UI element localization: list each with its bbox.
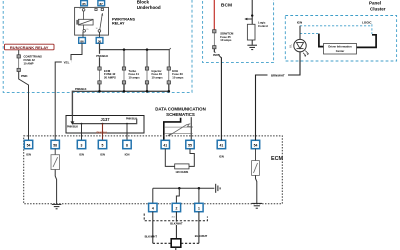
logic control element [247, 24, 255, 40]
internal LOGIC dashed net [371, 24, 373, 34]
svg-text:54: 54 [254, 144, 258, 148]
fuse SDM/TCM 25 [213, 30, 234, 49]
wire lamp to IGN net [299, 26, 301, 40]
svg-text:IGN: IGN [26, 152, 31, 156]
fuse Turbo Fuse 41 [122, 67, 140, 84]
svg-text:LOGIC: LOGIC [362, 21, 372, 25]
svg-text:41: 41 [163, 144, 167, 148]
wire below splice [175, 247, 177, 250]
svg-text:PNK/BLK: PNK/BLK [97, 132, 108, 135]
ECM pin 41 CAN [161, 140, 169, 148]
fuse EXH Fuse 33 [167, 67, 184, 84]
svg-text:PNK: PNK [21, 74, 28, 78]
wire J137 to ECM pin 3 [81, 124, 83, 141]
svg-text:85: 85 [82, 2, 86, 6]
driver information center [324, 44, 357, 55]
relay PWR/TRANS outline [75, 7, 109, 35]
svg-text:Driver Information: Driver Information [328, 45, 352, 49]
svg-text:10 amps: 10 amps [220, 38, 232, 42]
fuse Injector Fuse 40 [145, 67, 163, 84]
run/crank relay reference label [5, 44, 55, 50]
svg-text:54: 54 [27, 144, 31, 148]
ECM pin 8 [123, 140, 131, 156]
svg-text:2: 2 [175, 207, 177, 211]
junction dots top bus [123, 48, 149, 51]
relay pin 30 [96, 32, 103, 43]
J137 internal dots [81, 123, 128, 125]
wire driver to ground [256, 175, 257, 203]
arrow continuation left [247, 18, 253, 20]
svg-text:RELAY: RELAY [112, 21, 125, 25]
svg-text:87: 87 [100, 2, 104, 6]
wire top feed bus to fuses [100, 49, 170, 51]
ground BCM [247, 45, 257, 49]
svg-text:SCHEMATICS: SCHEMATICS [166, 112, 195, 117]
wire bus to pin 4 [152, 188, 154, 203]
fuse CONT/TRANS 42 [17, 55, 20, 72]
ground bus dots [178, 187, 200, 190]
ECM pin 3 [77, 140, 85, 156]
thick wire LOGIC to DIC left [319, 34, 324, 47]
wire BLK/WHT pin1 to splice [198, 212, 200, 244]
svg-text:PNK/BLK: PNK/BLK [96, 54, 108, 58]
svg-text:BLK/WHT: BLK/WHT [145, 234, 158, 238]
BCM logic control wire [251, 0, 253, 24]
underhood fuse block label [137, 0, 161, 10]
svg-text:BLK/WHT: BLK/WHT [170, 222, 183, 226]
svg-text:10 AMP: 10 AMP [24, 62, 34, 66]
wire CAN thick to schematics [164, 118, 181, 141]
wire bus to pin 2 [176, 188, 179, 203]
wire RED to fuse [213, 0, 215, 30]
svg-text:58: 58 [53, 144, 57, 148]
J137 entry arrowhead [70, 121, 74, 124]
internal IGN dashed net [300, 25, 372, 27]
svg-text:85: 85 [86, 29, 88, 31]
relay pin 86 [79, 32, 86, 43]
ECM pin 54 lamp driver [251, 140, 259, 148]
svg-text:RUN/CRANK RELAY: RUN/CRANK RELAY [10, 45, 49, 50]
ground right of bus [216, 184, 220, 193]
svg-text:86: 86 [79, 8, 81, 10]
wire to relay pin 85 [83, 0, 85, 1]
lamp rays [303, 51, 309, 56]
svg-text:55: 55 [188, 144, 192, 148]
ECM ground bus [153, 187, 215, 189]
instrument panel cluster box [285, 16, 396, 62]
wire pin55 to CAN resistor [189, 149, 194, 167]
svg-text:Control: Control [258, 24, 268, 28]
connector J137 [66, 116, 144, 134]
wire CAN right [190, 117, 192, 140]
svg-text:IGN: IGN [79, 152, 84, 156]
relay coil [76, 9, 93, 33]
wire PNK/BLK bottom collector bus [72, 84, 168, 116]
svg-text:10 amps: 10 amps [152, 76, 164, 80]
svg-text:YEL: YEL [63, 60, 69, 64]
ground ECM right [252, 203, 263, 208]
svg-text:BRN/WHT: BRN/WHT [271, 73, 285, 77]
ECM pin 55 CAN [186, 140, 194, 148]
wire label BRN [213, 53, 223, 57]
svg-text:BCM: BCM [221, 3, 232, 9]
panel cluster label [369, 1, 386, 12]
wire PNK/BLK relay pin 30 down to fuse F1 [99, 43, 101, 67]
wire to relay pin 87 [100, 0, 102, 1]
svg-text:PNK/BLK: PNK/BLK [75, 87, 87, 91]
junction dots bottom bus [98, 90, 170, 93]
svg-text:IGN: IGN [219, 154, 224, 158]
svg-text:Center: Center [336, 49, 345, 53]
thick wire DIC right loop [357, 35, 377, 48]
resistor 120 ohms [175, 164, 189, 174]
svg-text:3: 3 [81, 144, 83, 148]
fuse ECM FUSE 42 [98, 67, 116, 84]
svg-text:1: 1 [198, 207, 200, 211]
ECM pin 41 IGN [217, 140, 225, 158]
ECM lamp driver switch under pin 54 [252, 149, 260, 176]
wire to ground [251, 40, 253, 45]
svg-text:41: 41 [220, 144, 224, 148]
svg-text:Underhood: Underhood [137, 5, 161, 10]
wire BRN fuse to ECM pin 41 [214, 49, 221, 141]
ECM pin 1 [195, 203, 203, 211]
svg-text:DATA COMMUNICATION: DATA COMMUNICATION [155, 107, 206, 112]
relay name label [112, 17, 135, 25]
svg-text:8: 8 [126, 144, 128, 148]
BCM box [203, 0, 274, 63]
J137 internal bus [72, 116, 136, 124]
wire label BRN/WHT [268, 73, 289, 77]
twisted pair crossover [168, 124, 193, 136]
relay pin 87 [98, 1, 105, 6]
svg-text:20 AMPS: 20 AMPS [104, 76, 116, 80]
dashed continuation left [144, 214, 199, 221]
svg-text:IGN: IGN [125, 152, 130, 156]
relay switch [95, 8, 103, 32]
fuse CONT/TRANS label [24, 55, 42, 66]
wire label BLK/WHT center [168, 222, 185, 226]
svg-text:Panel: Panel [369, 1, 381, 6]
svg-text:PNK/BLK: PNK/BLK [67, 126, 78, 129]
logic control label [258, 21, 268, 28]
svg-text:10 amps: 10 amps [172, 76, 184, 80]
svg-text:ECM: ECM [271, 156, 283, 162]
svg-text:4: 4 [152, 207, 154, 211]
wire label PNK/BLK bus [74, 87, 95, 91]
underhood fuse block box [3, 0, 192, 92]
svg-text:5: 5 [102, 144, 104, 148]
svg-text:BLK/WHT: BLK/WHT [195, 234, 208, 238]
svg-text:BRN: BRN [213, 53, 220, 57]
ECM pin 54 left [24, 140, 32, 156]
svg-text:PNK/BLK: PNK/BLK [126, 117, 137, 120]
wire PNK fuse to ECM pin 54 [19, 72, 29, 141]
ground ECM left [52, 204, 62, 208]
wire YEL relay pin 86 to ECM pin 58 [55, 43, 82, 140]
wire BRN/WHT lamp to ECM pin 54 [256, 52, 301, 141]
DATA COMMUNICATION SCHEMATICS label [155, 107, 206, 117]
svg-text:MIL: MIL [290, 43, 293, 48]
ECM pin 2 [172, 203, 180, 211]
svg-text:87: 87 [102, 7, 104, 9]
svg-text:IGN: IGN [297, 21, 302, 25]
wire switch to ground [55, 170, 56, 204]
splice [171, 239, 181, 247]
relay internal pin numbers [79, 7, 103, 31]
svg-text:Cluster: Cluster [370, 6, 386, 11]
svg-text:30: 30 [98, 39, 102, 43]
svg-text:IGN: IGN [100, 152, 105, 156]
svg-text:86: 86 [80, 39, 84, 43]
ECM pin 4 [149, 203, 157, 211]
wire BLK/WHT pin2 to splice [175, 212, 177, 239]
ECM box [24, 136, 283, 204]
svg-text:120 OHMS: 120 OHMS [175, 170, 188, 174]
relay pin 85 [81, 1, 88, 6]
svg-text:Block: Block [137, 0, 150, 4]
wire BLK/WHT pin4 to splice [152, 212, 154, 244]
ECM pin 58 [51, 140, 59, 148]
ECM pin 5 [98, 140, 106, 156]
wire label YEL [62, 60, 72, 64]
svg-text:10 amps: 10 amps [129, 76, 141, 80]
dashed continuation right [199, 217, 208, 221]
svg-text:J137: J137 [100, 117, 110, 122]
indicator lamp [294, 39, 306, 51]
wire run/crank label to fuse [18, 50, 20, 55]
wire RED J137 to ECM pin 5 [102, 124, 104, 141]
svg-text:30: 30 [96, 28, 98, 30]
wire label PNK/BLK [96, 54, 109, 58]
wire pin41 to CAN resistor [165, 149, 174, 167]
junction dot [251, 14, 253, 16]
wire J137 to ECM pin 8 [126, 124, 128, 141]
wire bus to pin 1 [198, 188, 200, 203]
ECM switch under pin 58 [51, 149, 60, 170]
off-page twisted pair symbol [165, 127, 193, 133]
